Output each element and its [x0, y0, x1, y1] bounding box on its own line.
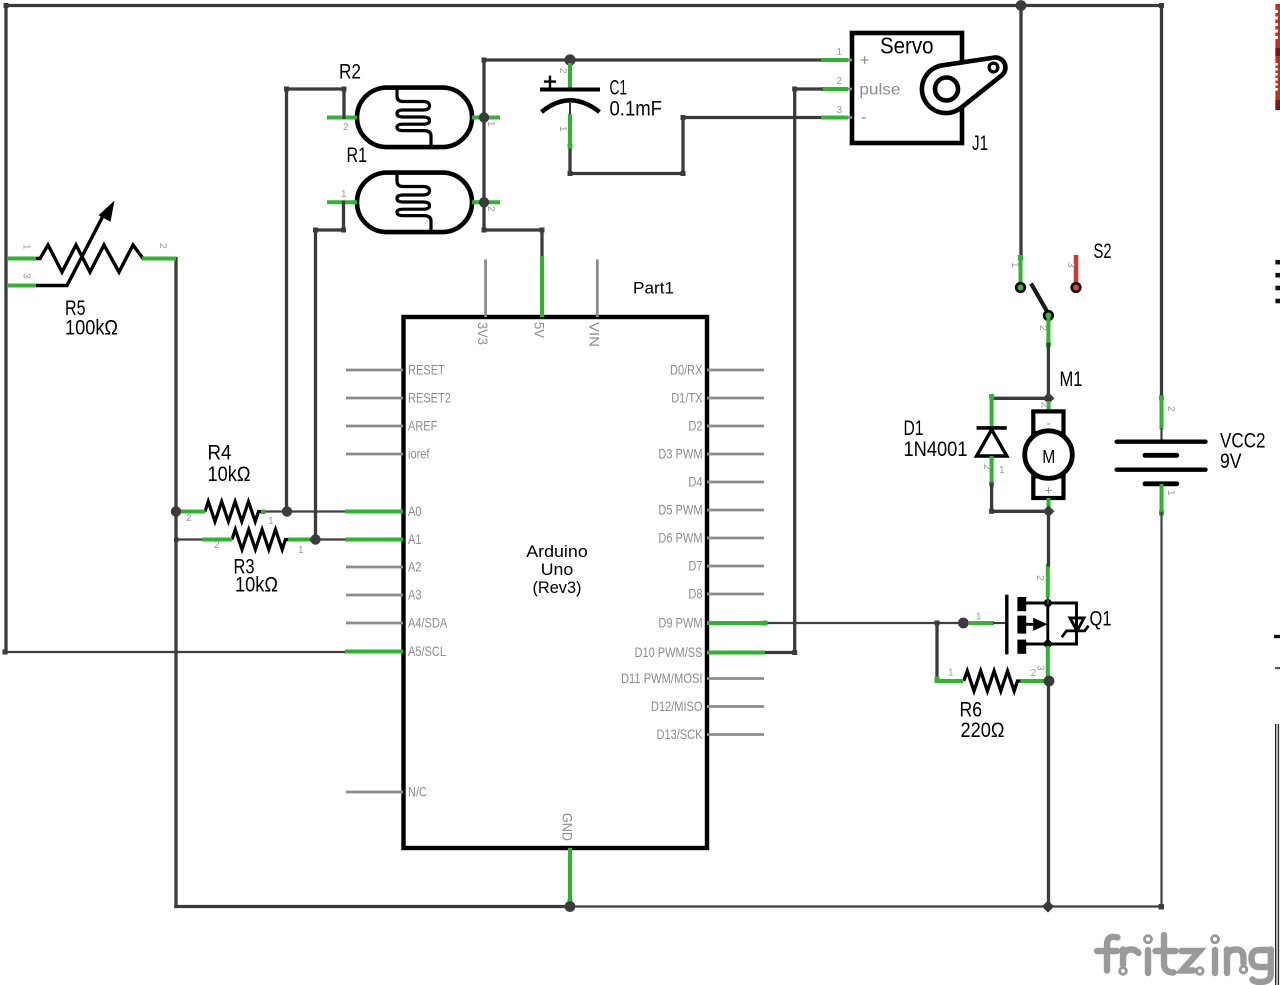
pin numbers R3 [214, 540, 304, 556]
pin A3 lead [346, 594, 403, 597]
svg-text:AREF: AREF [408, 418, 437, 434]
wire left rail from top-left corner down to A5 row [4, 6, 7, 653]
label S2 [1094, 240, 1112, 263]
wire S2 to motor node [1047, 345, 1050, 399]
svg-text:R2: R2 [339, 61, 361, 84]
Q1 source lead [1046, 646, 1050, 678]
junction R4 pin2 on rail [171, 506, 181, 516]
svg-text:3: 3 [21, 273, 32, 279]
svg-text:R1: R1 [347, 144, 368, 167]
svg-text:1: 1 [1165, 490, 1176, 496]
svg-text:A3: A3 [408, 587, 422, 603]
pin A1 lead (connected) [345, 538, 403, 542]
svg-text:D5 PWM: D5 PWM [658, 502, 702, 518]
clipped frame lines bottom right [1276, 724, 1279, 985]
label R4 10kOhm [208, 442, 251, 487]
label J1 [972, 132, 988, 155]
battery VCC2 pin1 lead [1159, 484, 1164, 516]
svg-text:2: 2 [836, 76, 842, 87]
servo pin 2 lead [821, 88, 852, 91]
svg-text:D12/MISO: D12/MISO [651, 698, 703, 714]
pin D6 PWM lead [707, 537, 764, 540]
svg-text:GND: GND [559, 813, 575, 841]
junction R6 pin2 node [1044, 676, 1055, 687]
svg-text:A1: A1 [408, 531, 422, 547]
wire 5V node: R2/R1 right rail to 5V pin [482, 58, 545, 260]
junction motor bottom node [1043, 505, 1055, 517]
label D1 1N4001 [904, 417, 968, 461]
pin D2 lead [707, 425, 764, 428]
clipped battery plates at right edge [1275, 260, 1280, 303]
pin D9 PWM lead (connected) [707, 621, 765, 625]
svg-text:2: 2 [1031, 668, 1037, 679]
svg-text:D7: D7 [688, 558, 702, 574]
label R2 [339, 61, 361, 84]
battery VCC2 [1117, 442, 1206, 484]
pin D1/TX lead [707, 397, 764, 400]
pin D3 PWM lead [707, 453, 764, 456]
svg-text:100kΩ: 100kΩ [65, 317, 118, 340]
pin number M1 [1039, 402, 1050, 408]
wire D9 to Q1 gate node [763, 621, 964, 626]
svg-text:1: 1 [21, 244, 32, 250]
svg-text:+: + [1045, 483, 1053, 498]
svg-text:2: 2 [343, 122, 349, 133]
wire top rail to S2 [1019, 6, 1022, 258]
S2 pin2 lead [1046, 318, 1051, 348]
pin D4 lead [707, 481, 764, 484]
wire R1 pin1 down to A1 node [313, 202, 346, 539]
wire top rail to battery [1160, 6, 1163, 399]
svg-text:2: 2 [557, 68, 568, 74]
svg-text:2: 2 [157, 243, 168, 249]
clipped red part at right edge [1275, 4, 1280, 110]
battery VCC2 pin2 lead [1159, 396, 1164, 441]
pin RESET lead [346, 369, 403, 372]
svg-text:D3 PWM: D3 PWM [658, 446, 702, 462]
label Servo [880, 33, 934, 59]
pin D5 PWM lead [707, 509, 764, 512]
servo pin numbers [836, 47, 842, 116]
junction bottom rail [1042, 900, 1054, 912]
svg-text:Servo: Servo [880, 33, 934, 59]
svg-text:2: 2 [1165, 406, 1176, 412]
svg-text:2: 2 [981, 464, 992, 470]
wire bottom ground rail [176, 904, 1164, 910]
pin D0/RX lead [707, 369, 764, 372]
pin 2 of R5 [142, 257, 176, 261]
label R5 100kOhm [65, 297, 118, 340]
right pin labels [621, 362, 703, 743]
label R3 10kOhm [234, 556, 279, 597]
pin ioref lead [346, 453, 403, 456]
svg-text:1: 1 [268, 516, 274, 527]
svg-text:VIN: VIN [587, 322, 603, 347]
label R6 220Ohm [960, 699, 1005, 743]
wire motor node down to Q1 drain [1047, 511, 1050, 565]
wire top rail [4, 3, 1165, 8]
pin 1 lead of R2 [472, 116, 500, 120]
pin numbers VCC2 [1165, 406, 1176, 496]
pin 2 lead of R1 [472, 200, 500, 204]
svg-text:D6 PWM: D6 PWM [658, 530, 702, 546]
svg-text:(Rev3): (Rev3) [533, 578, 582, 597]
label Arduino Uno (Rev3) [526, 542, 588, 597]
svg-text:5V: 5V [531, 322, 547, 339]
svg-text:0.1mF: 0.1mF [610, 98, 663, 121]
resistor R3 10k [232, 530, 288, 550]
clipped marks right edge middle [1274, 635, 1280, 669]
R6 pin2 lead [1021, 679, 1045, 683]
pin numbers Q1 [976, 575, 1046, 671]
wire node to D1 cathode [992, 397, 1049, 400]
pin 1 of R5 [7, 257, 36, 261]
label Part1 [633, 279, 674, 298]
pin 1 lead of R3 [288, 538, 311, 542]
wire R3 pin1 to A1 junction [311, 538, 345, 540]
diode D1 1N4001 [977, 394, 1007, 487]
photoresistor R1 [357, 173, 472, 233]
svg-text:1: 1 [341, 189, 347, 200]
svg-text:220Ω: 220Ω [961, 719, 1005, 742]
resistor R4 10k [205, 502, 263, 522]
pin number 2 of R2 [343, 122, 349, 133]
pin VIN lead [596, 260, 599, 318]
pin 5V lead (connected) [540, 256, 544, 317]
fritzing watermark [1097, 935, 1271, 982]
pin D11 PWM/MOSI lead [707, 677, 764, 680]
pin N/C lead [346, 791, 403, 794]
svg-text:9V: 9V [1220, 450, 1242, 473]
svg-text:3: 3 [1035, 665, 1046, 671]
svg-text:A2: A2 [408, 559, 422, 575]
svg-text:M1: M1 [1060, 368, 1083, 391]
pin numbers R6 [948, 668, 1037, 680]
wire pot pin2 rail down right side of R5 [174, 259, 177, 907]
R6 pin1 lead [935, 679, 964, 683]
svg-text:-: - [1046, 416, 1050, 431]
svg-text:D2: D2 [688, 418, 702, 434]
pin AREF lead [346, 425, 403, 428]
capacitor C1 [540, 76, 600, 116]
pin numbers C1 [557, 68, 568, 132]
pin number 2 of R1 right [485, 206, 496, 212]
svg-text:3V3: 3V3 [475, 322, 491, 345]
pin numbers R4 [186, 513, 274, 527]
label C1 0.1mF [610, 77, 663, 121]
junction GND on bottom rail [565, 901, 576, 912]
wire R4 pin1 to A0 junction [261, 510, 287, 515]
svg-text:1: 1 [999, 465, 1005, 476]
wire rail to R3 pin2 [174, 538, 202, 543]
svg-text:A4/SDA: A4/SDA [408, 615, 448, 631]
svg-text:RESET: RESET [408, 362, 445, 378]
svg-text:J1: J1 [972, 132, 988, 155]
svg-text:D10 PWM/SS: D10 PWM/SS [635, 644, 703, 660]
wire R6 node down to ground rail [1047, 681, 1050, 907]
svg-text:R4: R4 [208, 442, 232, 465]
pin 2 lead of R4 [179, 510, 205, 514]
svg-text:M: M [1042, 447, 1055, 467]
transistor Q1 MOSFET [1007, 595, 1089, 655]
labels 3V3 5V VIN [475, 322, 603, 347]
svg-text:1: 1 [1009, 262, 1020, 268]
svg-text:1: 1 [557, 126, 568, 132]
svg-text:10kΩ: 10kΩ [235, 574, 278, 597]
svg-text:+: + [860, 53, 869, 70]
motor M1 [1025, 401, 1073, 509]
pin numbers R5 [21, 243, 169, 279]
label GND [559, 813, 575, 841]
svg-text:A0: A0 [408, 503, 422, 519]
label Q1 [1090, 608, 1112, 631]
svg-text:RESET2: RESET2 [408, 390, 451, 406]
wire battery to bottom rail [1160, 513, 1162, 907]
Arduino Uno Part1 box [404, 317, 708, 848]
junction motor top node [1043, 392, 1055, 404]
svg-text:C1: C1 [610, 77, 628, 100]
svg-text:D1: D1 [904, 417, 924, 440]
pin 2 lead of R3 [202, 538, 232, 542]
resistor R6 220 [964, 671, 1021, 691]
capacitor C1 pin1 lead [568, 114, 572, 146]
pin number 1 of R1 [341, 189, 347, 200]
pin 1 lead of R1 [327, 200, 357, 204]
svg-text:Part1: Part1 [633, 279, 674, 298]
pin 2 lead of R2 [327, 116, 357, 120]
label R1 [347, 144, 368, 167]
svg-text:D1/TX: D1/TX [671, 390, 703, 406]
junction R1 pin2 [479, 197, 489, 207]
S2 pin1 lead [1018, 255, 1023, 286]
junction top rail S2 [1016, 0, 1027, 11]
switch S2 [1016, 283, 1052, 320]
pin D13/SCK lead [707, 733, 764, 736]
svg-text:D4: D4 [688, 474, 702, 490]
svg-text:1N4001: 1N4001 [904, 438, 968, 461]
label M1 [1060, 368, 1083, 391]
wire A0 junction to Arduino A0 [287, 510, 345, 512]
potentiometer R5 100k [36, 201, 143, 286]
S2 pin3 red unconnected lead [1072, 255, 1081, 292]
junction gate node [958, 618, 969, 629]
pin GND lead (connected) [568, 848, 573, 904]
photoresistor R2 [357, 88, 472, 148]
pin numbers S2 [1009, 262, 1076, 331]
svg-text:ioref: ioref [408, 446, 430, 462]
svg-text:1: 1 [948, 668, 954, 679]
svg-text:D8: D8 [688, 586, 702, 602]
junction node A0 [282, 506, 292, 516]
svg-text:D9 PWM: D9 PWM [658, 615, 702, 631]
pin numbers D1 [981, 464, 1005, 476]
wire R2 pin2 up-left and down to A0 node [284, 87, 347, 512]
svg-text:2: 2 [1034, 575, 1045, 581]
wire D10 to servo pulse [765, 87, 821, 656]
svg-text:D13/SCK: D13/SCK [657, 726, 704, 742]
wire A5/SCL horizontal to Arduino [3, 650, 346, 655]
svg-text:3: 3 [1065, 262, 1076, 268]
svg-text:Q1: Q1 [1090, 608, 1112, 631]
Q1 drain lead [1047, 564, 1049, 603]
svg-text:1: 1 [976, 612, 982, 623]
svg-text:3: 3 [836, 105, 842, 116]
pin A4/SDA lead [346, 622, 403, 625]
svg-text:A5/SCL: A5/SCL [408, 643, 446, 659]
Q1 gate lead [969, 621, 1006, 625]
wire servo plus from 5V rail [484, 58, 821, 61]
pin A0 lead (connected) [345, 510, 403, 514]
pin number 1 of R2 right [485, 121, 496, 127]
svg-text:S2: S2 [1094, 240, 1112, 263]
servo pin 3 lead [821, 116, 852, 119]
svg-text:-: - [861, 109, 866, 126]
pin A5/SCL lead (connected) [345, 650, 403, 654]
junction C1 pin2 [564, 54, 575, 65]
junction R2 pin1 [479, 112, 489, 122]
svg-text:2: 2 [1039, 402, 1050, 408]
servo pin labels [859, 53, 900, 127]
pin D12/MISO lead [707, 705, 764, 708]
wire C1 pin1 to servo minus [568, 115, 822, 176]
pin D8 lead [707, 593, 764, 596]
label VCC2 9V [1220, 430, 1266, 474]
pin 3V3 lead [484, 260, 487, 318]
servo J1 box [852, 33, 962, 143]
left pin labels [408, 362, 451, 800]
svg-text:D0/RX: D0/RX [670, 362, 703, 378]
wire D1 anode to motor bottom node [989, 484, 1048, 514]
svg-text:pulse: pulse [859, 82, 900, 99]
pin D7 lead [707, 565, 764, 568]
svg-text:1: 1 [298, 545, 304, 556]
pin 3 of R5 [7, 284, 36, 288]
servo pin 1 lead [821, 59, 852, 62]
junction node A1 [310, 534, 320, 544]
wire branch down to R6 pin1 [935, 623, 940, 682]
servo horn icon [922, 57, 1006, 113]
svg-text:Arduino: Arduino [526, 542, 588, 561]
svg-text:2: 2 [485, 206, 496, 212]
svg-text:10kΩ: 10kΩ [208, 463, 251, 486]
capacitor C1 pin2 lead [568, 63, 572, 90]
svg-text:D11 PWM/MOSI: D11 PWM/MOSI [621, 670, 703, 686]
pin RESET2 lead [346, 397, 403, 400]
pin D10 PWM/SS lead (connected) [707, 651, 765, 655]
svg-text:2: 2 [186, 513, 192, 524]
svg-text:2: 2 [1037, 325, 1048, 331]
svg-text:1: 1 [836, 47, 842, 58]
svg-text:Uno: Uno [541, 560, 574, 579]
svg-text:2: 2 [214, 540, 220, 551]
svg-text:N/C: N/C [408, 784, 427, 800]
pin A2 lead [346, 566, 403, 569]
